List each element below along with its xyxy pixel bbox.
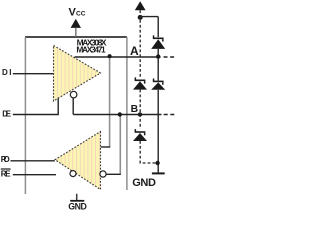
svg-text:GND: GND: [68, 202, 87, 212]
svg-text:GND: GND: [132, 177, 156, 189]
svg-text:B: B: [131, 104, 139, 115]
svg-text:RO: RO: [1, 155, 10, 164]
svg-text:CC: CC: [76, 11, 86, 18]
svg-text:MAX3471: MAX3471: [76, 45, 106, 55]
svg-text:DI: DI: [2, 68, 12, 77]
svg-text:DE: DE: [2, 110, 11, 119]
svg-text:RE: RE: [1, 170, 11, 179]
svg-text:A: A: [130, 44, 139, 58]
